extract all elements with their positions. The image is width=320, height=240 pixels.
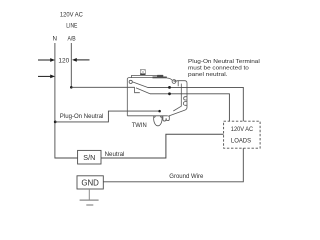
breaker CB1 body left edge <box>127 78 128 116</box>
svg-text:panel neutral.: panel neutral. <box>188 72 228 78</box>
wire pole 1 to loads <box>148 87 244 121</box>
breaker top wall dark section <box>153 77 167 79</box>
breaker CB1 top wall <box>128 75 167 77</box>
breaker pole 2 fixed contact <box>135 87 140 92</box>
arrow line feed 2 <box>72 58 90 62</box>
breaker line stab <box>163 116 169 121</box>
svg-text:120V AC: 120V AC <box>60 11 83 18</box>
svg-text:120V AC: 120V AC <box>231 126 254 133</box>
wire plug-on neutral <box>55 111 160 122</box>
wire N bus <box>55 43 78 158</box>
svg-text:Plug-On Neutral Terminal: Plug-On Neutral Terminal <box>188 59 260 65</box>
svg-text:A/B: A/B <box>68 36 76 43</box>
note plug-on neutral annotation <box>188 59 260 78</box>
breaker pole 1 lever <box>133 82 148 88</box>
wire A/B to breaker pole 2 input <box>71 86 134 88</box>
S/N box <box>78 150 101 164</box>
arrow line feed 3 <box>38 75 55 79</box>
wire pole 2 to loads <box>150 94 229 121</box>
breaker plug-on neutral clip <box>183 97 187 106</box>
node A/B junction <box>70 86 73 89</box>
svg-text:GND: GND <box>81 179 99 188</box>
loads box <box>224 121 261 148</box>
node plug-on neutral junction <box>54 121 57 124</box>
breaker CB1 bottom edge <box>127 115 168 117</box>
ground symbol <box>80 189 99 205</box>
breaker plug-on tab outline <box>168 81 187 117</box>
node pole 1 output <box>168 86 171 89</box>
wire neutral to loads <box>101 134 224 158</box>
breaker top right corner curve <box>167 78 172 80</box>
breaker pivot notch <box>174 80 175 81</box>
svg-text:TWIN: TWIN <box>132 122 147 129</box>
svg-text:S/N: S/N <box>83 153 95 162</box>
svg-text:120: 120 <box>58 58 69 65</box>
node pole 2 output <box>168 92 171 95</box>
breaker bottom hook <box>154 116 162 126</box>
wire ground to loads <box>103 148 243 182</box>
svg-text:Plug-On Neutral: Plug-On Neutral <box>60 113 104 120</box>
svg-text:LINE: LINE <box>66 23 77 30</box>
arrow line feed 1 <box>38 58 55 62</box>
wire A/B bus <box>70 43 72 87</box>
breaker plug-on tab inner edge <box>173 81 181 111</box>
GND box <box>77 176 103 189</box>
svg-text:N: N <box>52 36 56 43</box>
svg-text:must be connected to: must be connected to <box>188 66 250 72</box>
breaker pivot circle right <box>172 80 176 84</box>
breaker top terminal screw <box>140 69 145 75</box>
svg-text:Neutral: Neutral <box>105 151 125 158</box>
breaker pole 2 lever <box>136 88 150 94</box>
breaker handle bump <box>157 75 163 77</box>
svg-text:Ground Wire: Ground Wire <box>169 173 203 180</box>
breaker pivot circle left <box>129 80 132 83</box>
svg-text:LOADS: LOADS <box>231 137 252 144</box>
node plug-on neutral terminal <box>158 110 161 113</box>
